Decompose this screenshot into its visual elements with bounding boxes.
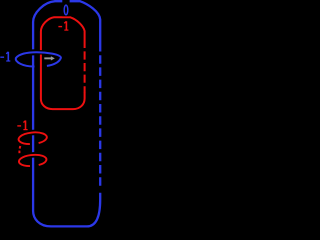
label -1 (red chain) [17, 121, 27, 130]
-1 framed red 2-handle: red stadium curve, solid portion with gap at ellipse crossing [41, 17, 85, 109]
red chain circle (bottom) with break under blue strand [18, 154, 46, 167]
label 0 (framing of blue handle) [64, 5, 68, 15]
red chain circle (top) with break under blue strand [18, 131, 47, 145]
label -1 (blue twist) [0, 52, 10, 61]
halo behind 0 label [62, 0, 69, 16]
red stadium curve, dashed right side [84, 48, 86, 93]
red dashed hidden connector between chain circles [18, 146, 21, 155]
gray twist-direction arrow [44, 56, 55, 60]
blue stadium curve, dashed right side [99, 52, 101, 190]
black halo under chain circles (cuts blue strand at crossings) [18, 131, 47, 145]
blue twist ellipse (big, around both strands), broken behind red strand at bottom [16, 52, 61, 66]
0-framed 2-handle: blue stadium curve, solid portion [33, 1, 100, 226]
label -1 (red framing, top) [58, 21, 68, 30]
